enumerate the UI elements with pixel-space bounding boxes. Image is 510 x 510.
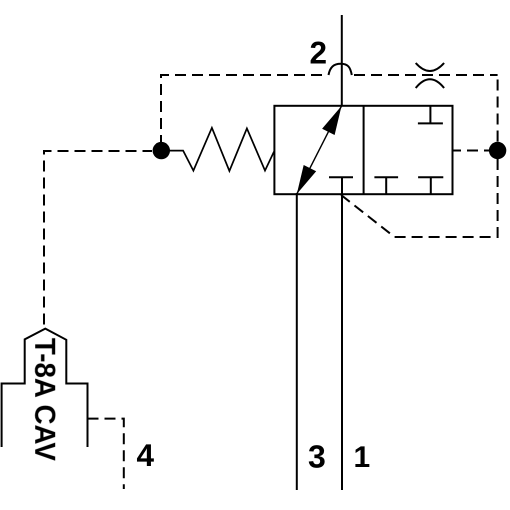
blocked port T right cell top bbox=[418, 106, 443, 124]
pilot line dot to cavity bbox=[44, 151, 152, 325]
wire stub valve right bbox=[453, 150, 462, 152]
valve body divider bbox=[363, 106, 365, 194]
wire port 1 line bbox=[341, 177, 343, 490]
svg-text:T-8A CAV: T-8A CAV bbox=[28, 338, 60, 462]
svg-text:3: 3 bbox=[308, 439, 326, 475]
junction node left bbox=[153, 142, 170, 159]
pilot line valve to right dot bbox=[461, 150, 489, 152]
svg-text:1: 1 bbox=[354, 441, 371, 474]
pilot line right vertical to dot bbox=[497, 74, 499, 142]
orifice top arc bbox=[416, 63, 444, 71]
svg-text:4: 4 bbox=[137, 437, 155, 473]
svg-text:2: 2 bbox=[310, 35, 328, 71]
flow arrow head bottom bbox=[297, 165, 316, 194]
pilot line left vertical and top horizontal left bbox=[161, 75, 328, 143]
pilot line hump over port 2 bbox=[329, 64, 352, 75]
pilot line cavity port 4 branch bbox=[88, 419, 124, 489]
flow arrow head top bbox=[322, 106, 341, 135]
pilot line right dot down to port 1 bbox=[341, 159, 498, 237]
blocked port T right cell bottom left bbox=[374, 177, 398, 194]
orifice bottom arc bbox=[416, 79, 444, 88]
spring bbox=[169, 128, 274, 171]
valve body U1 bbox=[274, 106, 452, 194]
blocked port T right cell bottom right bbox=[418, 177, 443, 194]
blocked port T left cell bbox=[329, 176, 353, 178]
junction node right bbox=[489, 142, 506, 159]
wire port 2 line bbox=[341, 15, 343, 106]
cavity outline T-8A bbox=[2, 329, 88, 447]
wire port 3 line bbox=[296, 193, 298, 490]
flow arrow shaft bbox=[297, 106, 342, 194]
pilot line top horizontal right bbox=[354, 74, 498, 76]
